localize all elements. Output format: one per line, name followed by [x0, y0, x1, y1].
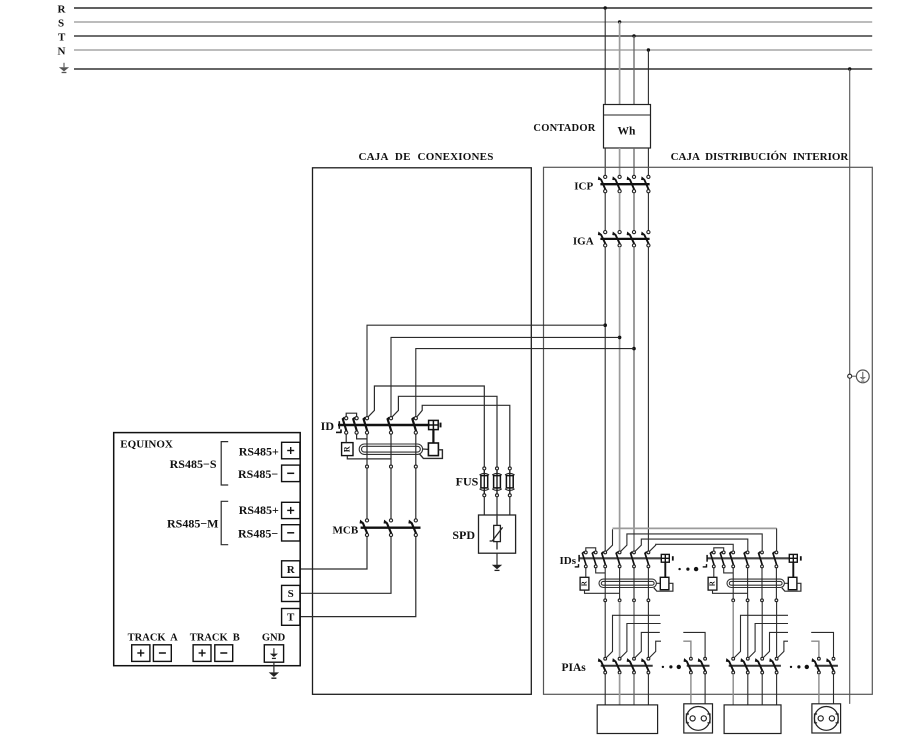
svg-text:CONTADOR: CONTADOR — [533, 123, 595, 134]
ID load terminal R — [366, 465, 369, 468]
wire PIAs g1 to load box 1 conductor 2 — [619, 674, 621, 705]
svg-text:ID: ID — [321, 419, 335, 433]
terminal R — [282, 561, 300, 578]
svg-text:IGA: IGA — [573, 235, 594, 247]
wire resistor to pole 2 — [585, 590, 620, 593]
bus wire N — [74, 49, 872, 51]
wire PIAs branch stub 1 — [606, 615, 660, 657]
pole 2 — [613, 657, 621, 674]
wire IDs g2 to PIAs pole 1 — [732, 602, 734, 658]
load box 1 — [597, 705, 657, 734]
pole 3 — [756, 657, 764, 674]
pole 1 — [602, 551, 607, 568]
wire IDs to PIAs pole 4 — [647, 602, 649, 658]
wire IGA down to IDs pole 3 — [633, 247, 635, 551]
bracket RS485-S — [221, 442, 228, 485]
IGA pole 1 — [599, 231, 607, 247]
ground symbol SPD — [492, 565, 502, 571]
bus wire S — [74, 21, 872, 23]
wire IDs to PIAs pole 2 — [619, 602, 621, 658]
junction dot R drop — [604, 6, 607, 9]
breaker bank PIAs group 2 — [727, 657, 781, 674]
wire S meter to ICP — [619, 148, 621, 175]
terminal S — [282, 585, 300, 601]
wire IDs bus branch 4 to group 2 — [650, 544, 734, 551]
test contact a — [582, 551, 587, 568]
ICP pole 4 — [642, 175, 650, 193]
wire PIAs g2 to load box 2 conductor 3 — [761, 674, 763, 705]
wire pole 1 through toroid — [604, 568, 606, 599]
wire feed to socket breaker 2 pole B — [811, 632, 833, 657]
pole 2 — [741, 657, 749, 674]
linkage bar — [687, 665, 710, 667]
wire PIAs branch stub 2 — [621, 624, 661, 658]
wire IDs bus branch 3 to group 2 — [635, 539, 748, 551]
wire pole 2 through toroid — [619, 568, 621, 599]
wire PIAs g2 to load box 2 conductor 1 — [732, 674, 734, 705]
terminal TRACK A + — [132, 645, 150, 662]
load box 2 — [724, 705, 781, 734]
bar left cap — [578, 555, 580, 562]
ID handle mark — [336, 431, 341, 433]
pole 1 — [813, 657, 821, 674]
wire S drop to meter — [619, 22, 621, 105]
wire pole 2 through toroid — [747, 568, 749, 599]
svg-text:R: R — [58, 3, 67, 15]
fuse FUS S — [492, 467, 502, 497]
toroid sensor — [599, 579, 656, 587]
toroid to relay link — [656, 582, 660, 584]
wire IGA down to IDs pole 1 — [604, 247, 606, 551]
terminal + (RS485-S) — [282, 442, 300, 459]
ID trip stem — [432, 430, 434, 443]
wire test a to resistor — [713, 568, 715, 578]
wire ID T branch to fuse — [417, 405, 510, 467]
ID relay loop wire — [419, 450, 442, 459]
wire pole 3 through toroid — [633, 568, 635, 599]
wire T tap to connection box — [416, 349, 634, 417]
IGA linkage bar — [600, 238, 649, 240]
RCD ID (residual current device) — [321, 413, 443, 468]
socket outlet socket 1 (schuko) — [684, 704, 713, 733]
ID test bridge wire — [346, 413, 356, 416]
earth terminal circle on PE riser — [848, 374, 852, 378]
device EQUINOX — [114, 433, 301, 666]
wire ICP to IGA pole 1 — [604, 193, 606, 231]
wire pole 4 through toroid — [775, 568, 777, 599]
wire to socket 1 L — [690, 674, 692, 704]
IGA pole 4 — [642, 231, 650, 247]
wire PIAs branch stub 4 — [650, 641, 662, 657]
wire N drop to meter — [647, 50, 649, 105]
svg-text:CAJA DE CONEXIONES: CAJA DE CONEXIONES — [358, 151, 493, 163]
wire ID pole S through toroid — [390, 434, 392, 465]
fuse FUS R — [480, 467, 490, 497]
wire pole 3 through toroid — [761, 568, 763, 599]
wire ICP to IGA pole 4 — [647, 193, 649, 231]
pole 4 — [642, 657, 650, 674]
test bridge wire — [714, 548, 724, 551]
test contact b — [592, 551, 597, 568]
enclosure CAJA DISTRIBUCION INTERIOR — [544, 167, 873, 694]
breaker bank socket breaker 1 — [685, 657, 710, 674]
wire PIAs g2 to load box 2 conductor 2 — [747, 674, 749, 705]
junction dot R tap — [603, 323, 607, 327]
wire IDs bus branch 2 to group 2 — [621, 534, 763, 551]
pole 1 — [685, 657, 693, 674]
wire PIAs g1 to load box 1 conductor 1 — [604, 674, 606, 705]
bar right tick — [672, 556, 674, 560]
bar left cap — [706, 555, 708, 562]
load terminal 3 — [633, 599, 636, 602]
linkage bar — [729, 665, 781, 667]
wire ID pole T through toroid — [415, 434, 417, 465]
svg-text:TRACK B: TRACK B — [190, 632, 240, 643]
svg-text:IDs: IDs — [559, 555, 576, 567]
wire fuse to SPD — [496, 497, 498, 515]
wire test b to pole R — [357, 434, 367, 439]
ID test contact a — [343, 417, 348, 435]
IGA pole 2 — [613, 231, 621, 247]
pole 3 — [631, 551, 636, 568]
wire PIAs g2 to load box 2 conductor 4 — [776, 674, 778, 705]
test bridge wire — [586, 548, 596, 551]
linkage bar — [815, 665, 838, 667]
svg-text:T: T — [58, 31, 66, 43]
load terminal 1 — [604, 599, 607, 602]
SPD surge protector — [479, 515, 516, 553]
ICP pole 1 — [599, 175, 607, 193]
ID load terminal S — [390, 465, 393, 468]
wire to socket 2 L — [818, 674, 820, 704]
ID test contact b — [353, 417, 358, 435]
svg-text:MCB: MCB — [333, 525, 359, 537]
pole 2 — [827, 657, 835, 674]
handle mark — [703, 566, 707, 568]
wire test b to pole 1 — [596, 568, 606, 573]
bracket RS485-M — [221, 501, 228, 544]
wire test a to resistor — [345, 434, 347, 442]
wire IDs to PIAs pole 3 — [633, 602, 635, 658]
fuse FUS T — [505, 467, 515, 497]
svg-text:TRACK A: TRACK A — [128, 632, 178, 643]
wire ID pole R through toroid — [366, 434, 368, 465]
ID bar right tick — [440, 423, 442, 428]
pole 2 — [616, 551, 621, 568]
ID toroid sensor — [359, 444, 422, 454]
earth link wire — [852, 375, 857, 377]
junction dot S tap — [618, 336, 622, 340]
svg-text:RS485+: RS485+ — [239, 445, 279, 459]
wire PIAs g2 branch stub 4 — [778, 641, 788, 657]
load terminal 4 — [775, 599, 778, 602]
ID load terminal T — [414, 465, 417, 468]
terminal TRACK B + — [193, 645, 211, 662]
ICP linkage bar — [600, 183, 649, 185]
earth bus wire PE — [74, 68, 872, 70]
svg-text:R: R — [343, 446, 352, 452]
trip stem — [664, 562, 666, 577]
wire to socket 2 N — [833, 674, 835, 704]
wire fuse to SPD — [509, 497, 511, 515]
wire ID R branch to fuse — [368, 386, 484, 467]
relay coil — [788, 577, 797, 589]
svg-text:SPD: SPD — [452, 528, 475, 542]
wire T meter to ICP — [633, 148, 635, 175]
junction dot N drop — [647, 48, 650, 51]
socket outlet socket 2 (schuko) — [812, 704, 841, 733]
toroid sensor — [727, 579, 784, 587]
wire PIAs g2 branch stub 1 — [734, 615, 788, 657]
svg-text:RS485−S: RS485−S — [170, 457, 217, 471]
test contact a — [710, 551, 715, 568]
svg-text:RS485−M: RS485−M — [167, 516, 219, 530]
svg-text:EQUINOX: EQUINOX — [120, 439, 173, 451]
ground symbol EQUINOX — [269, 672, 279, 678]
terminal + (RS485-M) — [282, 502, 300, 518]
ellipsis dots PIAs group 2 — [790, 665, 809, 669]
load terminal 2 — [746, 599, 749, 602]
ICP pole 3 — [628, 175, 636, 193]
enclosure CAJA DE CONEXIONES — [313, 168, 532, 695]
wire PIAs g2 branch stub 3 — [763, 632, 788, 657]
pole 3 — [759, 551, 764, 568]
pole 1 — [727, 657, 735, 674]
relay loop wire — [782, 583, 801, 591]
svg-text:PIAs: PIAs — [562, 662, 587, 674]
svg-text:N: N — [58, 46, 66, 58]
pole 4 — [770, 657, 778, 674]
junction dot T drop — [632, 34, 635, 37]
svg-text:Wh: Wh — [618, 126, 637, 138]
wire PIAs branch stub 3 — [635, 632, 660, 657]
ID pole T — [412, 417, 417, 435]
svg-text:T: T — [287, 612, 295, 624]
breaker MCB (3-pole) — [333, 519, 421, 537]
bar — [707, 557, 790, 559]
wire test b to pole 1 — [724, 568, 734, 573]
breaker ICP (4-pole) — [574, 175, 650, 193]
pole 2 — [699, 657, 707, 674]
wire SPD to ground — [496, 553, 498, 565]
bus wire T — [74, 35, 872, 37]
wire IDs g2 to PIAs pole 3 — [761, 602, 763, 658]
wire ICP to IGA pole 3 — [633, 193, 635, 231]
wire MCB T to EQUINOX — [300, 537, 416, 617]
wire pole 1 through toroid — [732, 568, 734, 599]
junction dot PE drop — [848, 67, 851, 70]
ID test resistor R — [342, 443, 353, 456]
wire PE drop (earth riser) — [849, 69, 851, 704]
svg-text:ICP: ICP — [574, 181, 593, 193]
IGA pole 3 — [628, 231, 636, 247]
ID relay coil — [428, 443, 438, 456]
relay coil — [660, 577, 669, 589]
wire T drop to meter — [633, 36, 635, 105]
MCB pole S — [385, 519, 393, 537]
bus wire R — [74, 7, 872, 9]
ID linkage bar — [338, 424, 430, 427]
junction dot T tap — [632, 347, 636, 351]
load terminal 2 — [618, 599, 621, 602]
trip stem — [792, 562, 794, 577]
ID pole S — [388, 417, 393, 435]
pole 4 — [645, 551, 650, 568]
svg-text:CAJA DISTRIBUCIÓN INTERIOR: CAJA DISTRIBUCIÓN INTERIOR — [671, 151, 850, 163]
svg-text:RS485−: RS485− — [238, 467, 278, 481]
load terminal 1 — [732, 599, 735, 602]
MCB pole T — [409, 519, 417, 537]
svg-text:RS485+: RS485+ — [239, 503, 279, 517]
wire S tap to connection box — [391, 337, 620, 416]
toroid to relay link — [784, 582, 788, 584]
bar right tick — [800, 556, 802, 560]
test resistor R — [708, 577, 717, 590]
wire fuse to SPD — [483, 497, 485, 515]
svg-text:RS485−: RS485− — [238, 527, 278, 541]
ellipsis dots PIAs group 1 — [662, 665, 681, 669]
wire R drop to meter — [604, 8, 606, 105]
wire IGA down to IDs pole 4 — [647, 247, 649, 551]
wire PIAs g2 branch stub 2 — [749, 624, 788, 658]
earth electrode symbol (circled ground) — [856, 370, 869, 383]
svg-text:FUS: FUS — [456, 475, 479, 489]
trip cross box — [789, 554, 797, 562]
pole 2 — [744, 551, 749, 568]
terminal GND — [264, 645, 283, 662]
wire feed to socket breaker 2 pole A — [811, 641, 819, 657]
wire GND to earth — [273, 662, 275, 672]
terminal TRACK A - — [153, 645, 171, 662]
ID trip cross box — [429, 420, 439, 429]
ID toroid to relay link — [423, 448, 429, 450]
ellipsis dots IDs row — [678, 567, 698, 571]
wire pole 4 through toroid — [647, 568, 649, 599]
RCD IDs group 2 (4-pole) — [703, 548, 801, 602]
wire IGA down to IDs pole 2 — [619, 247, 621, 551]
terminal - (RS485-S) — [282, 465, 300, 482]
junction dot S drop — [618, 20, 621, 23]
wire PIAs g1 to load box 1 conductor 3 — [633, 674, 635, 705]
wire ICP to IGA pole 2 — [619, 193, 621, 231]
RCD IDs group 1 (4-pole) — [575, 548, 673, 602]
wire MCB R to EQUINOX — [300, 537, 367, 569]
terminal - (RS485-M) — [282, 525, 300, 541]
wire IDs g2 to PIAs pole 2 — [747, 602, 749, 658]
wire MCB S to EQUINOX — [300, 537, 391, 594]
pole 4 — [773, 551, 778, 568]
svg-text:GND: GND — [262, 632, 286, 643]
bar — [579, 557, 662, 559]
meter Wh (CONTADOR) — [604, 105, 651, 149]
wire PIAs g1 to load box 1 conductor 4 — [647, 674, 649, 705]
wire to socket 1 N — [704, 674, 706, 704]
wire test a to resistor — [585, 568, 587, 578]
MCB pole R — [361, 519, 369, 537]
ground symbol at earth bus origin — [59, 63, 69, 73]
wire feed to socket breaker 1 pole A — [683, 641, 691, 657]
wire R meter to ICP — [604, 148, 606, 175]
load terminal 4 — [647, 599, 650, 602]
test contact b — [720, 551, 725, 568]
pole 1 — [730, 551, 735, 568]
wire ID S branch to fuse — [392, 396, 497, 467]
wire ID to MCB pole R — [366, 468, 368, 519]
ID bar left cap — [338, 421, 340, 429]
breaker bank PIAs group 1 — [599, 657, 653, 674]
load terminal 3 — [761, 599, 764, 602]
wire IDs bus branch 1 to group 2 — [606, 528, 776, 551]
pole 3 — [628, 657, 636, 674]
linkage bar — [601, 665, 653, 667]
breaker bank socket breaker 2 — [813, 657, 838, 674]
pole 1 — [599, 657, 607, 674]
wire N meter to ICP — [647, 148, 649, 175]
svg-text:S: S — [58, 17, 64, 29]
handle mark — [575, 566, 579, 568]
test resistor R — [580, 577, 589, 590]
wire R tap to connection box — [367, 325, 605, 416]
MCB linkage bar — [361, 527, 421, 529]
wire ID to MCB pole T — [415, 468, 417, 519]
svg-text:S: S — [288, 588, 294, 600]
wire resistor to pole 2 — [713, 590, 748, 593]
terminal T — [282, 609, 300, 626]
wire ID to MCB pole S — [390, 468, 392, 519]
relay loop wire — [654, 583, 673, 591]
wire resistor to pole S — [347, 456, 391, 459]
wire feed to socket breaker 1 pole B — [683, 632, 705, 657]
terminal TRACK B - — [215, 645, 233, 662]
breaker IGA (4-pole) — [573, 231, 650, 248]
ICP pole 2 — [613, 175, 621, 193]
wire IDs g2 to PIAs pole 4 — [776, 602, 778, 658]
wire IDs to PIAs pole 1 — [604, 602, 606, 658]
svg-text:R: R — [287, 564, 296, 576]
ID pole R — [364, 417, 369, 435]
trip cross box — [661, 554, 669, 562]
